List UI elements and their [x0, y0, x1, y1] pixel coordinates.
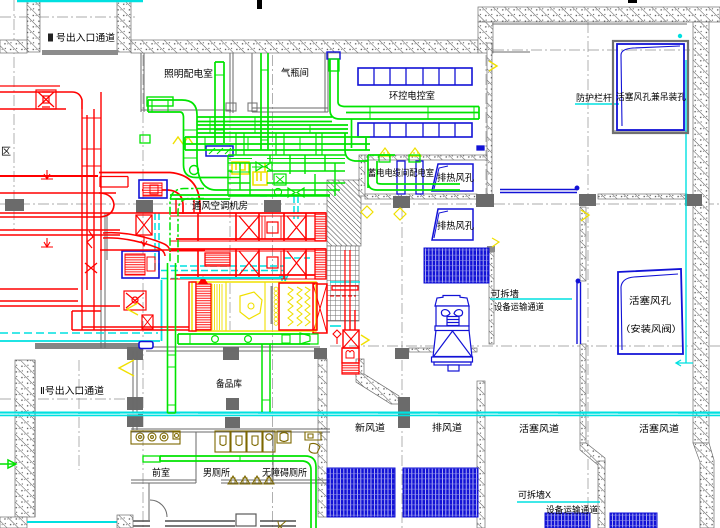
- yellow chevron x583: [581, 210, 589, 221]
- green solid riser x167 lower: [168, 263, 176, 413]
- red duct band y193-217: [0, 193, 114, 217]
- green mesh machine room: [228, 133, 345, 197]
- wall: y195 band right: [598, 194, 687, 199]
- wall: battery room left wall: [359, 155, 365, 196]
- blue hatch grid mid: [424, 248, 489, 283]
- wall: spare store left: [132, 351, 134, 430]
- door box bottom: [236, 514, 256, 526]
- wall: toilet mid y481: [131, 479, 196, 481]
- duct wall sleeves: [226, 103, 257, 111]
- wall: lighting room left: [140, 53, 142, 112]
- wall: battery room top: [365, 155, 487, 160]
- red riser duct left: [82, 92, 101, 330]
- cyan vertical right x686: [685, 60, 687, 363]
- red bowtie damper mid-left: [124, 291, 146, 310]
- red duct band y289-306: [0, 289, 120, 306]
- cyan underline 可拆墙 mid: [490, 298, 572, 300]
- red duct corner lower-left: [72, 311, 189, 330]
- wall: bottom-left corner piece: [0, 517, 27, 528]
- svg-text:排风道: 排风道: [432, 422, 463, 434]
- green trunk y137-150: [185, 137, 370, 150]
- cyan overlay line at AHU bottom: [180, 277, 281, 279]
- red bar above shaft: [332, 286, 358, 290]
- svg-text:可拆墙X: 可拆墙X: [518, 489, 551, 500]
- yellow diamond 2: [394, 208, 406, 220]
- red elbow to machine room: [99, 173, 200, 215]
- red floor unit with X and symbol: [342, 310, 359, 374]
- svg-text:区: 区: [1, 146, 11, 158]
- battery room damper 1: [397, 161, 405, 194]
- blue box on west wall bar: [139, 342, 153, 349]
- wall: top band west of corridor: [0, 40, 27, 53]
- wall: cylinder room bottom: [252, 107, 328, 109]
- wc fixtures right: [277, 431, 291, 443]
- green machine in lighting room: [147, 97, 173, 106]
- columns dark gray: [5, 194, 702, 428]
- column C1: [264, 200, 281, 212]
- green trunk y195: [170, 195, 330, 199]
- column G1: [685, 194, 702, 206]
- red duct top-left horizontal: [0, 92, 82, 109]
- column B3a: [127, 397, 143, 410]
- yellow AHU big box: [189, 277, 317, 331]
- yellow elements: [119, 61, 589, 376]
- svg-text:照明配电室: 照明配电室: [164, 68, 213, 80]
- yellow chevron wall top: [489, 61, 497, 71]
- column S2: [314, 348, 327, 359]
- cyan fitting at AHU right: [279, 275, 288, 281]
- red damper in duct y176: [100, 177, 128, 188]
- red line y176: [0, 175, 98, 177]
- cyan underline 防护栏杆: [575, 103, 619, 105]
- blue hatch grid bottom 3: [545, 513, 590, 528]
- wall: battery room bottom: [365, 194, 477, 199]
- red supply arrow: [41, 170, 53, 179]
- green duct network: [0, 53, 479, 528]
- svg-text:活塞风道: 活塞风道: [519, 423, 560, 435]
- red AHU row 1 outline: [170, 199, 326, 241]
- svg-text:新风道: 新风道: [355, 422, 386, 434]
- wall: right exterior wall lower jog: [693, 443, 714, 528]
- wall: y350 band: [409, 348, 477, 352]
- green toilet trunk: [160, 456, 316, 528]
- cyan top edge line: [17, 0, 143, 2]
- green trunk y333-344: [178, 333, 318, 344]
- column D2: [395, 348, 409, 359]
- svg-text:排热风孔: 排热风孔: [437, 172, 474, 184]
- yellow zigzag left: [173, 137, 193, 144]
- wall: left exterior wall lower: [15, 360, 35, 517]
- green trunk right y106-119: [340, 107, 479, 120]
- blue sleeve box in duct run: [206, 146, 233, 156]
- svg-text:无障碍厕所: 无障碍厕所: [262, 467, 307, 479]
- red duct y231: [0, 230, 120, 235]
- green arrow west: [0, 460, 16, 468]
- wall: stair shaft dense hatch: [327, 180, 361, 246]
- column C3: [225, 417, 240, 428]
- wall: x487 corridor wall: [487, 43, 492, 200]
- wall: step connector at x478: [478, 22, 493, 53]
- svg-text:环控电控室: 环控电控室: [389, 90, 435, 102]
- blue hatch grid bottom 1: [327, 468, 395, 517]
- green drop to battery room: [345, 119, 395, 161]
- red fancoil unit upper (blue frame red hatch): [139, 180, 167, 198]
- yellow silencer box 2: [253, 163, 267, 185]
- red AHU row 2 outline: [170, 249, 326, 279]
- red top assembly above machine room: [99, 193, 152, 246]
- wall: corridor sill gray bar: [42, 50, 118, 55]
- piston hole box top-right: blue box: [617, 44, 684, 130]
- cyan dot top right: [678, 34, 682, 38]
- yellow chevron shaft right: [361, 335, 369, 345]
- stall doors row: [228, 476, 274, 484]
- cyan machine room duct horizontal: [155, 196, 310, 279]
- wall: fresh-air shaft right wall: [477, 381, 485, 528]
- wall: top-right upper band: [478, 7, 720, 22]
- wall: west room divider x100: [100, 213, 102, 348]
- yellow chevron passage: [119, 360, 134, 376]
- blue duct line to right: [500, 189, 577, 191]
- wall: x580 diagonal jog: [580, 443, 605, 465]
- green riser B: [261, 53, 268, 150]
- svg-text:活塞风孔兼吊装孔: 活塞风孔兼吊装孔: [616, 91, 686, 102]
- piston hole box top-right: gray frame: [613, 41, 688, 133]
- green ring fitting: [190, 166, 199, 175]
- wall: main top band: [131, 40, 478, 53]
- cyan main band y413: [0, 412, 720, 414]
- svg-text:排热风孔: 排热风孔: [437, 220, 474, 232]
- yellow triangle vent 2: [409, 148, 421, 156]
- red small exhaust unit right of yellow: [313, 284, 327, 333]
- wall: solid bar west of spare store: [35, 343, 146, 349]
- bottom door arc: [278, 521, 286, 528]
- svg-text:备品库: 备品库: [216, 378, 242, 390]
- wall: ventilation room left boundary: [106, 213, 108, 260]
- wall: lighting room bottom: [141, 109, 231, 111]
- toilet fixtures olive: [131, 431, 321, 528]
- wall: top-left corridor right jamb: [117, 0, 131, 52]
- blue hatch grid bottom 2: [403, 468, 478, 517]
- wall: shaft tile grid block: [327, 246, 359, 321]
- wall: top-right inner line: [492, 23, 687, 25]
- wall: top right area vertical x617 frame base: [613, 130, 688, 132]
- column B1: [136, 200, 153, 213]
- cyan band white dashes: [0, 413, 720, 415]
- wall: toilet divider x196: [195, 432, 197, 483]
- wall: left lower inner line: [34, 360, 36, 517]
- svg-text:防护栏杆: 防护栏杆: [576, 92, 612, 103]
- piston box 2 inner curve: [621, 274, 678, 350]
- cooling tower symbol: [432, 296, 473, 372]
- column C3a: [226, 398, 239, 410]
- blue hatch grid bottom 4: [610, 513, 657, 528]
- svg-text:通风空调机房: 通风空调机房: [192, 200, 248, 212]
- wall: spare store top y347: [146, 346, 320, 348]
- piston hole box right-mid: [618, 269, 683, 354]
- tick mark 1: [257, 0, 262, 9]
- wall: cylinder room right: [324, 53, 326, 112]
- battery room damper 2: [416, 161, 423, 194]
- cyan arrow right mid: [676, 360, 693, 366]
- svg-text:可拆墙: 可拆墙: [491, 288, 519, 299]
- column B2: [127, 347, 143, 360]
- wall: stub above diagonal: [356, 359, 364, 376]
- svg-text:Ⅱ号出入口通道: Ⅱ号出入口通道: [40, 385, 105, 397]
- exhaust vent quad 2: [432, 209, 473, 240]
- exhaust vent quad 1: [432, 164, 473, 191]
- wall: x580 lower segment: [580, 344, 586, 443]
- sinks counter: [131, 431, 180, 444]
- cable tray row B: [358, 123, 472, 137]
- door leaf and swing passage: [149, 483, 167, 520]
- cyan underline 可拆墙 bottom: [517, 501, 600, 503]
- wall: x580 upper segment: [580, 207, 586, 281]
- green riser C with elbow: [330, 59, 479, 119]
- cyan bottom line y522: [27, 521, 130, 523]
- red fancoil unit lower (blue frame red hatch): [122, 251, 159, 278]
- svg-text:号出入口通道: 号出入口通道: [56, 32, 116, 44]
- tick mark 2: [628, 0, 637, 3]
- urinal row: [215, 431, 275, 452]
- yellow triangle vent 1: [379, 148, 391, 156]
- green riser x262 down: [262, 344, 270, 412]
- yellow silencer box 1: [232, 162, 249, 174]
- svg-text:设备运输通道: 设备运输通道: [494, 301, 544, 312]
- green battery room boxes: [379, 155, 390, 162]
- green dashdot riser x170: [170, 189, 204, 264]
- top black ticks: [257, 0, 637, 9]
- svg-text:蓄电电缆间配电室: 蓄电电缆间配电室: [368, 167, 434, 178]
- wall: y53 inner line right: [493, 51, 530, 53]
- piston box inner curve: [621, 46, 680, 126]
- column F1: [579, 194, 596, 206]
- wall piece bottom hatch: [117, 515, 133, 528]
- svg-text:设备运输通道: 设备运输通道: [546, 504, 598, 515]
- column A1: [5, 199, 24, 211]
- red damper bowtie top-left: [36, 90, 56, 109]
- wall: cylinder room left: [251, 53, 253, 112]
- wall: right exterior wall: [693, 22, 709, 443]
- wall: toilet divider x273: [272, 432, 274, 483]
- red return duct wavy: [103, 233, 170, 256]
- blue vertical door line x578: [576, 282, 578, 344]
- red arrow y238: [41, 238, 53, 247]
- cable tray row A: [358, 68, 472, 85]
- green wall stub lighting: [140, 135, 150, 143]
- red duct network: [0, 86, 359, 374]
- yellow piece near battery room: [492, 238, 499, 247]
- wall: bottom segments y523: [127, 521, 296, 526]
- red small X box: [142, 315, 153, 329]
- svg-text:前室: 前室: [152, 467, 170, 479]
- wall: toilet top y430: [131, 428, 330, 430]
- blue door box on top wall: [327, 52, 340, 59]
- column D3: [398, 397, 410, 428]
- label: I box glyph: [48, 34, 53, 42]
- column C2: [223, 347, 239, 360]
- red X small x92: [85, 263, 97, 273]
- svg-text:活塞风道: 活塞风道: [639, 423, 680, 435]
- wall: top-left corridor left jamb: [27, 0, 40, 52]
- cyan return loop left: [0, 332, 158, 334]
- wall: diagonal band to column: [356, 374, 399, 404]
- svg-text:（安装风阀）: （安装风阀）: [620, 323, 682, 334]
- column D1: [393, 196, 410, 208]
- red riser pair center: [345, 250, 350, 310]
- wall: lighting/cylinder divider: [229, 53, 231, 113]
- wall: x598 bottom segment: [598, 461, 605, 528]
- blue elements: [139, 41, 688, 528]
- red diamond marker: [333, 330, 341, 344]
- wall: vertical below shaft: [318, 359, 327, 517]
- green duct lighting room L with drop: [148, 100, 228, 190]
- yellow diamond 1: [361, 206, 373, 218]
- red branch mark: [87, 231, 93, 248]
- cyan mark near shaft: [330, 281, 360, 283]
- red duct top of AHU zone y250: [100, 249, 205, 251]
- column B3b: [127, 414, 143, 427]
- green riser A: [215, 62, 224, 143]
- wall: removable wall x489: [489, 252, 494, 344]
- column E1: [476, 194, 494, 207]
- svg-text:男厕所: 男厕所: [203, 468, 230, 479]
- green trunk upper y117-133: [197, 117, 348, 133]
- blue cursor mark: [477, 146, 484, 150]
- yellow chevron west: [127, 303, 138, 315]
- svg-text:气瓶间: 气瓶间: [281, 67, 309, 79]
- svg-text:活塞风孔: 活塞风孔: [629, 295, 672, 307]
